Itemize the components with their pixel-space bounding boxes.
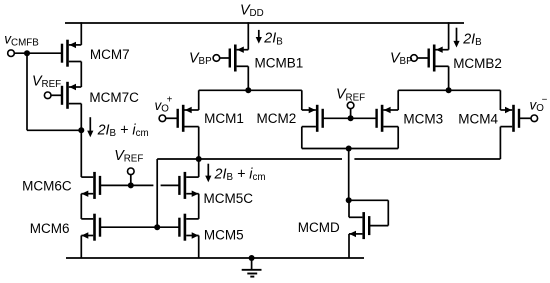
svg-text:MCM5C: MCM5C [204, 191, 254, 206]
wire vCMFB bottom horizontal [27, 129, 81, 131]
terminal vCMFB [8, 50, 15, 57]
svg-text:MCMD: MCMD [298, 220, 340, 235]
transistor MCM1 [177, 105, 199, 132]
ground rail wire [66, 257, 364, 259]
node tail junction [346, 146, 352, 152]
wire MCM2 gate to MCM3 gate [323, 117, 376, 119]
transistor MCMB2 [428, 45, 449, 72]
node MCM1 drain junction [196, 156, 202, 162]
transistor MCM5C [178, 172, 199, 199]
wire VREF node to MCM5C gate (after hop) [161, 184, 180, 186]
wire VREF mid stem [350, 109, 352, 119]
wire VDD rail [65, 22, 464, 24]
current arrow 2IB+icm middle [205, 164, 211, 183]
transistor MCM4 [500, 105, 520, 132]
node ground junction [249, 255, 255, 261]
wire MCMD diode loop top [349, 199, 389, 201]
svg-text:MCM7C: MCM7C [89, 90, 139, 105]
node MCM1 MCM2 source junction [245, 87, 251, 93]
terminal VREF left [44, 92, 51, 99]
wire MCM1 MCM2 source rail [199, 89, 302, 91]
transistor MCM2 [302, 105, 324, 132]
node MCMD drain junction [346, 197, 352, 203]
svg-text:MCM1: MCM1 [204, 111, 244, 126]
wire MCM3 MCM4 source rail [398, 89, 500, 91]
svg-text:MCM3: MCM3 [403, 111, 443, 126]
wire output node left segment [157, 158, 342, 160]
transistor MCMD [349, 212, 370, 239]
terminal vO- [531, 115, 538, 122]
wire VBP to MCMB2 gate [417, 57, 429, 59]
node vCMFB junction [24, 50, 30, 56]
wire MCM3 source vertical [397, 90, 399, 110]
transistor MCM7 [61, 40, 82, 67]
node cm current junction [78, 127, 84, 133]
node MCM6 MCM5 gate junction [154, 224, 160, 230]
node MCM3 MCM4 source junction [446, 87, 452, 93]
wire MCMB1 source to VDD [247, 22, 249, 50]
wire tail down to MCMD [348, 149, 350, 201]
svg-text:MCM6C: MCM6C [22, 178, 72, 193]
node VREF mid junction [348, 115, 354, 121]
wire MCM4 drain vertical [499, 127, 501, 159]
wire MCM4 gate to vO- [519, 117, 531, 119]
terminal VBP right [411, 55, 418, 62]
wire vCMFB to MCM7 gate [14, 52, 61, 54]
wire MCM7 source to VDD [80, 22, 82, 45]
wire vCMFB down [26, 53, 28, 130]
transistor MCM5 [178, 214, 199, 241]
svg-text:MCM5: MCM5 [204, 228, 244, 243]
transistor MCM7C [61, 82, 82, 109]
wire MCMB1 drain down [247, 66, 249, 90]
transistor MCM6C [81, 172, 101, 199]
wire MCM5 source to ground [198, 236, 200, 259]
wire MCM6 MCM5 gate wire [100, 226, 179, 228]
wire MCMB2 source to VDD [448, 22, 450, 50]
wire MCMD diode loop right [387, 200, 389, 225]
transistor MCM6 [81, 214, 101, 241]
wire MCM7 drain to MCM7C source [80, 62, 82, 88]
wire output node right segment (after hop) [354, 158, 500, 160]
ground [242, 258, 262, 277]
transistor MCM3 [375, 105, 398, 132]
wire MCM2 source vertical [301, 90, 303, 110]
current arrow 2IB+icm left [87, 117, 93, 137]
wire MCM7C drain down [80, 104, 82, 131]
wire MCMD diode loop to gate [370, 225, 389, 227]
wire MCM2 drain vertical [301, 127, 303, 149]
wire MCM3 drain vertical [397, 127, 399, 149]
wire MCM6 source to ground [80, 236, 82, 259]
wire MCMD drain vertical [348, 200, 350, 217]
wire MCM6C source to MCM6 drain [80, 194, 82, 219]
wire junction down to MCM6C [80, 130, 82, 177]
wire vO+ to MCM1 gate [166, 117, 178, 119]
wire MCMD source to ground [348, 234, 350, 258]
terminal VBP left [213, 55, 220, 62]
svg-text:MCMB1: MCMB1 [255, 56, 304, 71]
current arrow 2IB left [256, 30, 262, 44]
current arrow 2IB right [453, 28, 459, 48]
wire MCM5C source to MCM5 drain [198, 194, 200, 219]
wire MCMB2 drain down [448, 66, 450, 90]
wire MCM4 source vertical [499, 90, 501, 110]
wire cascode gate feedback vertical [156, 159, 158, 227]
svg-text:MCM4: MCM4 [458, 111, 498, 126]
wire VBP to MCMB1 gate [220, 57, 230, 59]
node VREF cascode junction [128, 182, 134, 188]
wire MCM2 MCM3 drain rail [302, 148, 398, 150]
svg-text:MCM7: MCM7 [90, 47, 130, 62]
wire MCM1 source vertical [198, 90, 200, 110]
transistor MCMB1 [229, 45, 249, 72]
svg-text:MCM6: MCM6 [30, 221, 70, 236]
terminal VREF cascode [128, 168, 135, 175]
svg-text:MCM2: MCM2 [257, 111, 297, 126]
svg-text:MCMB2: MCMB2 [453, 56, 502, 71]
wire MCM6C gate to VREF node [100, 184, 153, 186]
wire MCM1 drain / MCM5C drain vertical [198, 127, 200, 178]
wire VREF stem [130, 174, 132, 185]
terminal vO+ [159, 115, 166, 122]
wire VREF to MCM7C gate [51, 94, 62, 96]
terminal VREF mid [347, 102, 354, 109]
